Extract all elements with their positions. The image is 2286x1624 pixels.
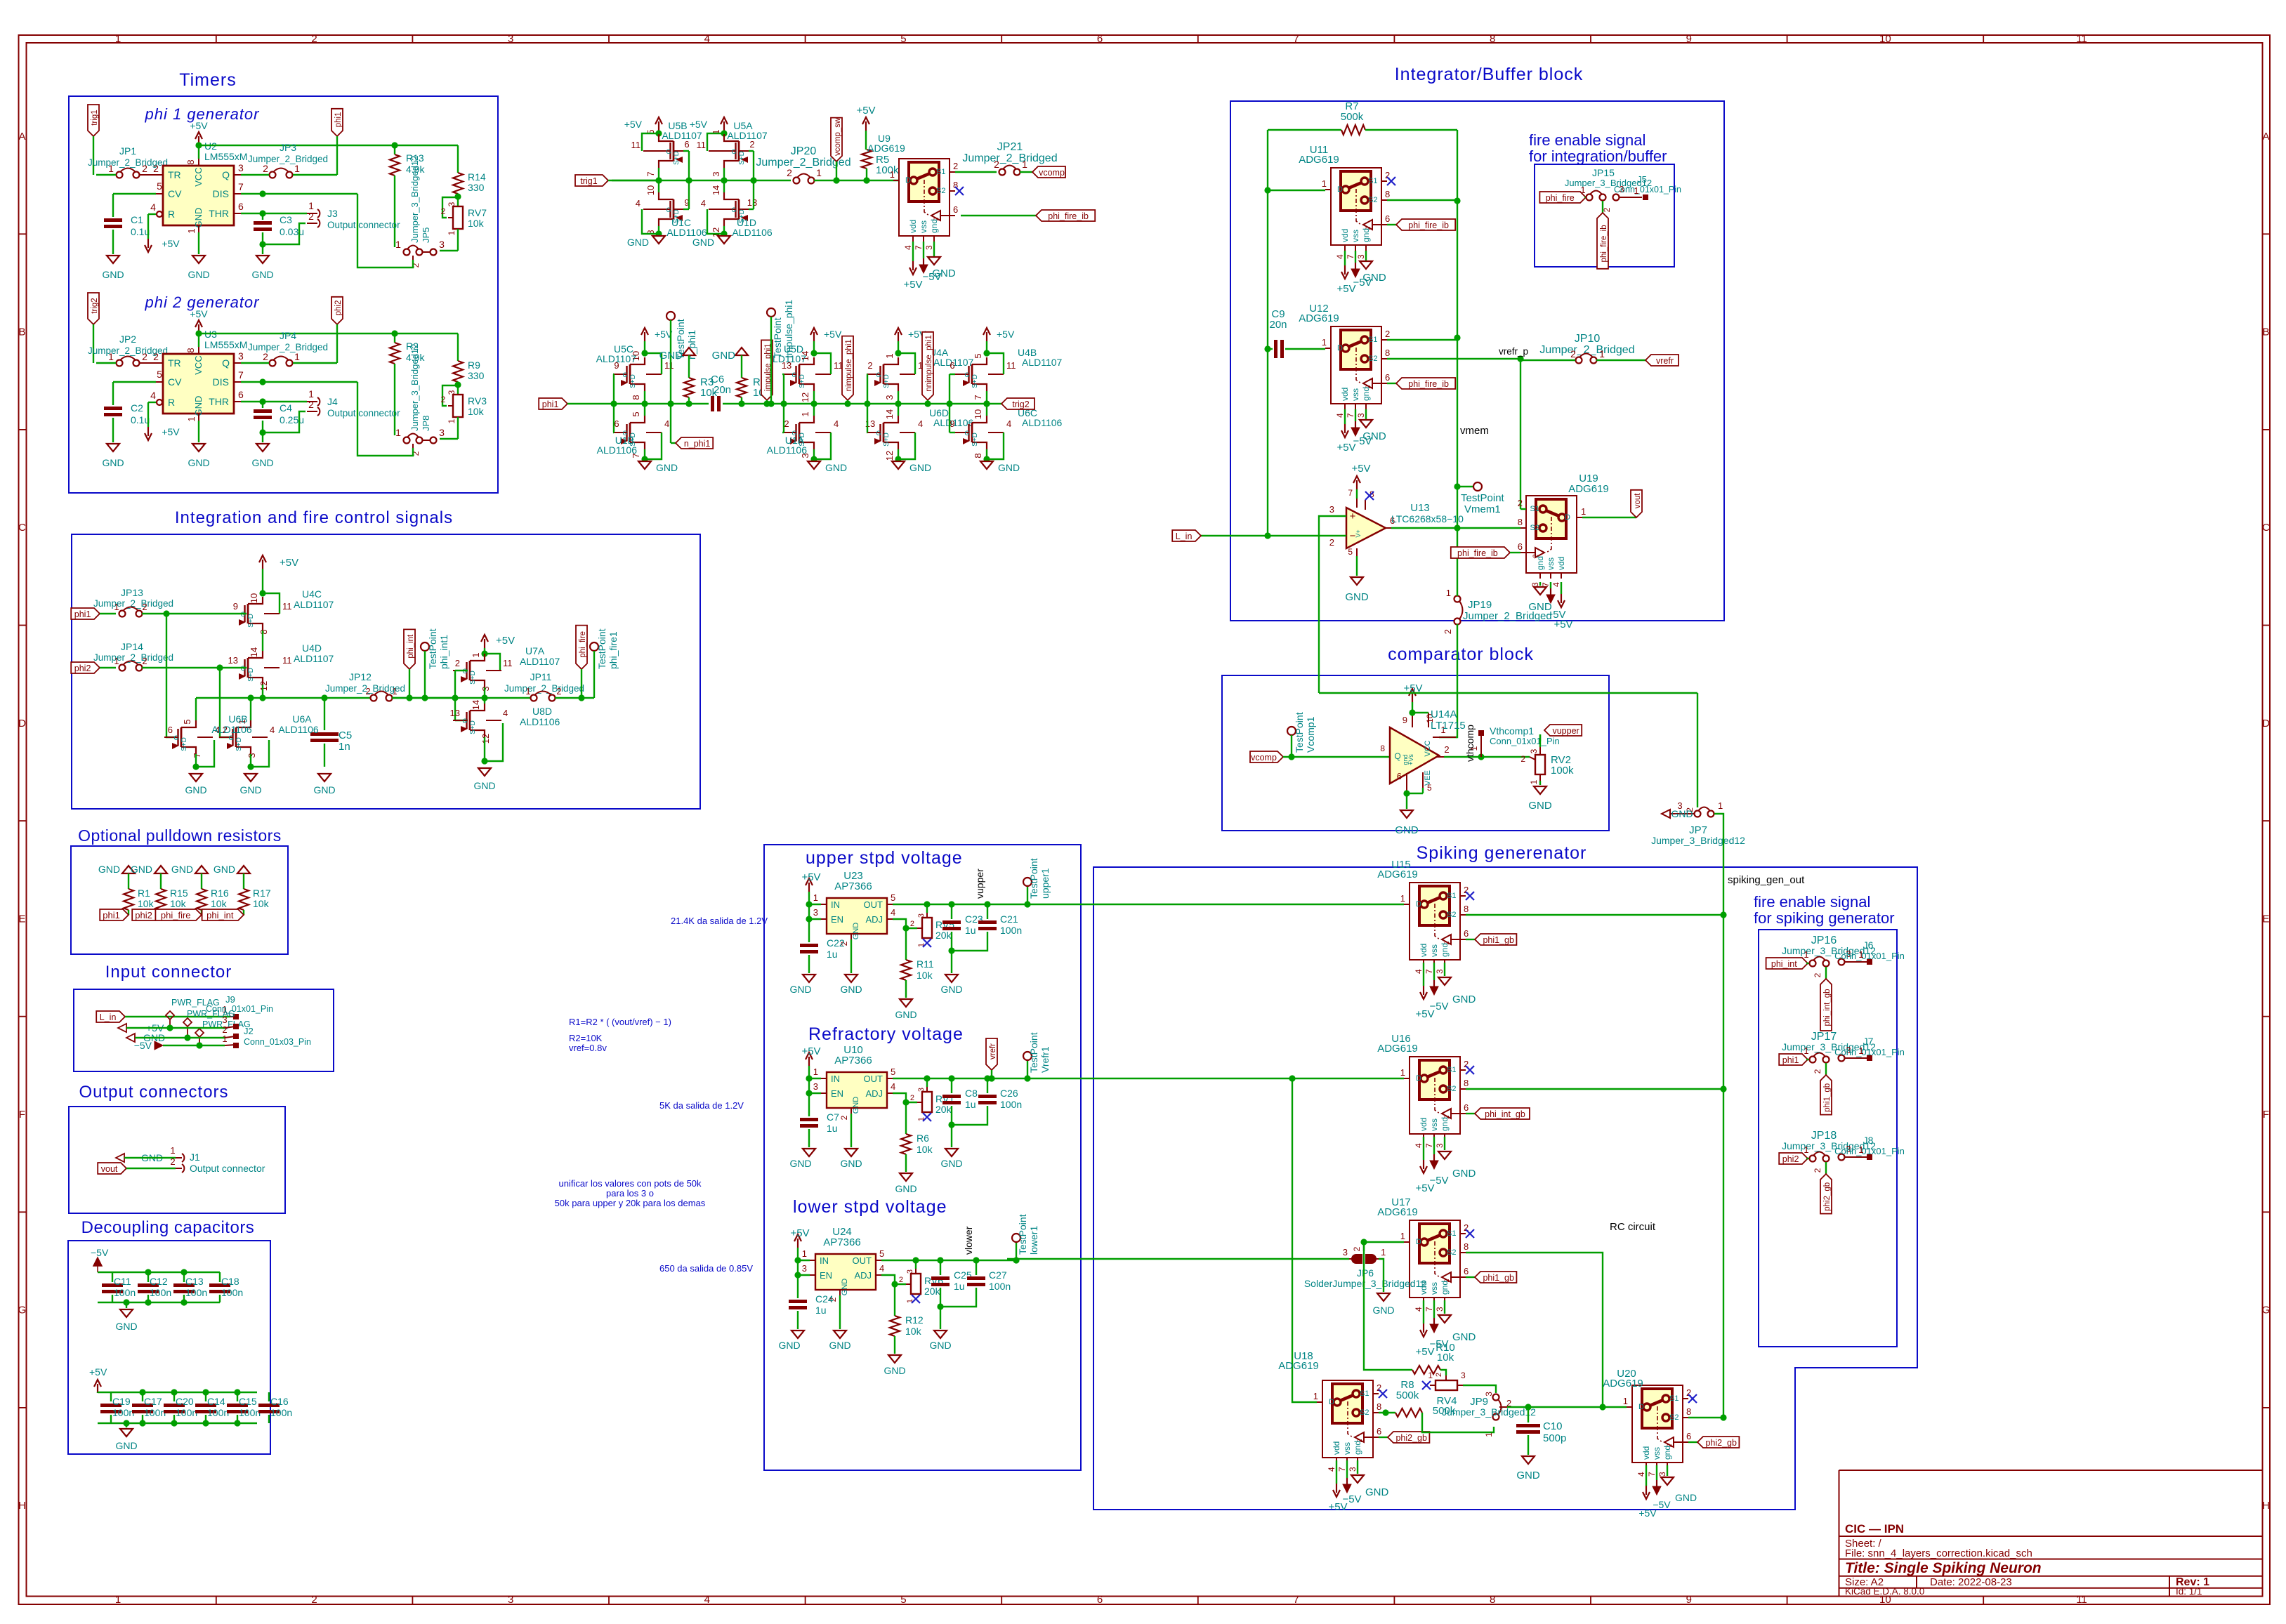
svg-text:1: 1 (294, 163, 300, 174)
wire OUT row (881, 1257, 1020, 1263)
power +5V (641, 328, 673, 357)
svg-text:100n: 100n (207, 1407, 229, 1418)
svg-text:phi_int: phi_int (1771, 959, 1797, 969)
svg-text:5: 5 (182, 719, 192, 724)
svg-text:2: 2 (263, 163, 268, 174)
svg-text:CV: CV (168, 188, 182, 199)
global label trig1 (88, 105, 99, 175)
svg-text:J6: J6 (1863, 939, 1874, 951)
svg-text:13: 13 (747, 197, 757, 208)
wire comparator output (1444, 753, 1530, 760)
svg-text:GND: GND (171, 864, 193, 875)
svg-text:phi_fire: phi_fire (1546, 193, 1575, 203)
local label vthcomp (1464, 725, 1476, 762)
svg-text:GND: GND (1372, 1305, 1394, 1316)
jumper JP7 (1651, 693, 1745, 846)
svg-text:gnd: gnd (1353, 1441, 1362, 1455)
svg-text:+5V: +5V (162, 238, 180, 249)
svg-text:1: 1 (170, 1145, 175, 1156)
svg-text:GND: GND (239, 784, 261, 796)
svg-text:8: 8 (1490, 33, 1495, 45)
transistor U5D PMOS (782, 351, 843, 402)
resistor R11 (901, 928, 934, 998)
U12 bottom power (1336, 409, 1386, 454)
wire JP19 to comparator (1439, 624, 1457, 737)
svg-text:TestPoint: TestPoint (772, 317, 783, 358)
svg-text:3: 3 (508, 1594, 513, 1606)
Integration and fire control signals box (72, 508, 700, 809)
svg-text:LTC6268x58−10: LTC6268x58−10 (1391, 513, 1464, 524)
transistor U5C PMOS (613, 351, 674, 400)
svg-text:ADG619: ADG619 (867, 143, 905, 154)
svg-text:2: 2 (1813, 1168, 1822, 1173)
connector J2 Conn_01x03_Pin (244, 1026, 311, 1047)
svg-text:Integration and fire control s: Integration and fire control signals (175, 508, 453, 527)
svg-text:3: 3 (439, 239, 445, 250)
svg-text:U8D: U8D (532, 706, 552, 717)
svg-text:IN: IN (831, 1074, 840, 1084)
svg-text:GND: GND (313, 784, 335, 796)
svg-text:JP1: JP1 (119, 145, 136, 157)
svg-text:1: 1 (1484, 1432, 1494, 1437)
svg-text:1: 1 (114, 602, 119, 612)
svg-text:n_phi1: n_phi1 (684, 439, 711, 449)
svg-text:1u: 1u (827, 1123, 838, 1134)
wires IN EN (794, 1260, 810, 1279)
svg-text:vmem: vmem (1460, 425, 1489, 437)
svg-text:GND: GND (778, 1340, 800, 1351)
wire source gnd (481, 723, 503, 765)
svg-text:6: 6 (1464, 1266, 1469, 1276)
svg-text:4: 4 (834, 418, 839, 429)
svg-text:2: 2 (1518, 498, 1523, 508)
jumper JP3 (241, 142, 337, 178)
regulator U10 AP7366 (813, 1044, 895, 1120)
ground (980, 461, 1020, 473)
svg-text:vupper: vupper (974, 869, 985, 899)
decoupling group +5V (89, 1366, 257, 1423)
global label phi_int (404, 629, 415, 701)
wire JP7 to spiking rail (1714, 814, 1723, 915)
svg-text:GND: GND (188, 457, 209, 468)
svg-text:+5V: +5V (903, 279, 922, 291)
svg-text:R12: R12 (905, 1314, 924, 1326)
svg-text:S+D: S+D (673, 151, 681, 165)
power +5V (690, 117, 728, 137)
svg-text:phi_int1: phi_int1 (438, 635, 449, 669)
timer IC U2 LM555xM (150, 140, 247, 234)
capacitor C24 (789, 1275, 834, 1329)
svg-text:Q: Q (222, 169, 230, 180)
svg-text:vcomp_sw: vcomp_sw (834, 117, 842, 156)
svg-text:H: H (2262, 1500, 2270, 1512)
U15 bottom power (1415, 963, 1476, 1020)
resistor R10 (1364, 1242, 1455, 1374)
svg-text:D: D (2262, 718, 2270, 730)
global label phi1_gb (1466, 934, 1516, 945)
svg-text:phi_int: phi_int (407, 634, 415, 659)
jumper JP9 vertical (1442, 1385, 1536, 1437)
svg-text:IN: IN (831, 899, 840, 910)
svg-text:vupper: vupper (1552, 726, 1579, 736)
svg-text:2: 2 (1443, 629, 1453, 634)
ground (251, 256, 273, 280)
wire source gnd (247, 740, 269, 770)
power +5V comparator (1403, 682, 1428, 716)
svg-text:J4: J4 (327, 396, 338, 407)
wire phi1 to U4C gate (166, 613, 230, 614)
svg-text:C: C (18, 522, 26, 534)
jumper JP11 (504, 671, 594, 701)
svg-text:100n: 100n (185, 1287, 207, 1298)
Optional pulldown resistors box (71, 826, 288, 954)
svg-text:1: 1 (1469, 746, 1479, 751)
svg-text:4: 4 (918, 418, 923, 429)
svg-text:phi1: phi1 (542, 400, 559, 409)
svg-text:for spiking generator: for spiking generator (1754, 909, 1895, 927)
potentiometer RV6 (899, 1260, 943, 1303)
svg-text:8: 8 (1490, 1594, 1495, 1606)
wire GND pin (198, 421, 199, 442)
svg-text:C18: C18 (221, 1276, 239, 1287)
svg-text:1: 1 (1400, 893, 1405, 904)
global label trig1 (575, 175, 659, 186)
connector J3 (307, 200, 400, 230)
svg-text:Vcomp1: Vcomp1 (1305, 716, 1316, 753)
svg-text:fire enable signal: fire enable signal (1754, 893, 1870, 911)
svg-text:vss: vss (1429, 1118, 1439, 1131)
svg-text:S1: S1 (1447, 892, 1456, 900)
svg-text:2: 2 (1435, 1373, 1443, 1377)
svg-text:10: 10 (1879, 33, 1891, 45)
ground up / resistor R3 (659, 348, 718, 404)
svg-text:1: 1 (108, 351, 114, 362)
wire bulk column (683, 151, 692, 209)
power +5V (983, 328, 1015, 357)
U9 bottom power (903, 242, 955, 291)
svg-text:1u: 1u (965, 1099, 976, 1110)
svg-text:S+D: S+D (247, 668, 255, 682)
svg-text:nnimpulse_phi1: nnimpulse_phi1 (925, 335, 933, 392)
wire nmos source (641, 433, 662, 463)
resistor R2 (390, 334, 425, 435)
svg-text:phi1: phi1 (74, 609, 91, 619)
svg-text:1: 1 (1858, 949, 1863, 960)
ground reg (840, 939, 862, 995)
svg-text:D: D (1337, 344, 1343, 352)
resistor R1 (98, 864, 155, 915)
svg-text:1: 1 (1804, 949, 1808, 960)
svg-text:GND: GND (840, 984, 862, 995)
svg-text:1: 1 (1400, 1067, 1405, 1078)
jumper JP21 (962, 141, 1057, 176)
svg-text:500p: 500p (1543, 1432, 1566, 1444)
svg-text:S+D: S+D (799, 374, 806, 388)
analog switch U11 ADG619 (1299, 144, 1395, 259)
svg-text:8: 8 (1464, 904, 1469, 914)
svg-text:Jumper_2_Bridged: Jumper_2_Bridged (962, 152, 1057, 164)
wire nmos source (895, 433, 915, 463)
svg-text:14: 14 (884, 409, 895, 419)
wire comparator out top rail (1319, 692, 1697, 694)
svg-text:R15: R15 (170, 887, 188, 899)
svg-text:Conn_01x01_Pin: Conn_01x01_Pin (1490, 736, 1560, 746)
svg-text:GND: GND (883, 1365, 905, 1376)
jumper JP10 (1520, 333, 1645, 364)
svg-text:vss: vss (1546, 557, 1556, 570)
svg-text:ADG619: ADG619 (1603, 1378, 1643, 1389)
wire -in L_in (1201, 535, 1346, 536)
svg-text:Optional pulldown resistors: Optional pulldown resistors (78, 826, 282, 845)
wire DIS to jumper (241, 378, 413, 456)
svg-text:gnd: gnd (1440, 1281, 1450, 1295)
svg-text:Conn_01x01_Pin: Conn_01x01_Pin (1834, 1146, 1905, 1156)
svg-text:Jumper_2_Bridged: Jumper_2_Bridged (248, 342, 328, 352)
resistor R13 (390, 145, 425, 247)
svg-text:12: 12 (884, 451, 895, 461)
svg-text:GND: GND (852, 1097, 860, 1114)
svg-text:Q: Q (1394, 751, 1400, 761)
svg-text:−5V: −5V (1342, 1493, 1361, 1505)
svg-text:7: 7 (1346, 254, 1355, 259)
svg-text:U14A: U14A (1431, 708, 1457, 720)
wire gates (864, 374, 870, 433)
local label vmem (1460, 425, 1489, 437)
ground (808, 461, 847, 473)
transistor U1B NMOS (613, 411, 669, 458)
svg-text:ADG619: ADG619 (1377, 1206, 1418, 1218)
svg-text:GND: GND (102, 269, 124, 280)
svg-text:Jumper_3_Bridged12: Jumper_3_Bridged12 (409, 156, 420, 243)
jumper JP2 (88, 334, 168, 367)
ground (102, 256, 124, 280)
svg-text:3: 3 (1356, 254, 1366, 259)
svg-text:10: 10 (973, 409, 983, 419)
svg-text:8: 8 (631, 395, 641, 400)
svg-text:6: 6 (953, 204, 958, 215)
svg-text:spiking_gen_out: spiking_gen_out (1728, 874, 1805, 886)
svg-text:1: 1 (1858, 1144, 1863, 1155)
svg-text:vout: vout (1634, 493, 1642, 509)
ground (892, 461, 931, 473)
svg-text:phi_int_gb: phi_int_gb (1485, 1109, 1525, 1119)
capacitor C5 / U6A (278, 694, 352, 767)
svg-text:ADJ: ADJ (865, 914, 883, 925)
svg-text:GND: GND (1345, 591, 1369, 603)
transistor U1C NMOS (636, 185, 707, 238)
svg-text:GND: GND (656, 462, 678, 473)
svg-text:8: 8 (1464, 1078, 1469, 1088)
svg-text:9: 9 (950, 418, 954, 429)
local label vrefr_p (1499, 346, 1528, 357)
svg-text:Integrator/Buffer block: Integrator/Buffer block (1395, 65, 1584, 84)
svg-text:vss: vss (1351, 230, 1360, 242)
svg-text:G: G (2262, 1305, 2271, 1316)
svg-text:S2: S2 (936, 187, 945, 195)
svg-text:2: 2 (784, 418, 789, 429)
svg-text:6: 6 (1464, 1102, 1469, 1113)
svg-text:3: 3 (813, 1081, 818, 1092)
svg-text:8: 8 (185, 348, 196, 352)
svg-text:1: 1 (813, 892, 818, 903)
ground (239, 774, 261, 796)
svg-text:S1: S1 (1447, 1066, 1456, 1074)
svg-text:D: D (1416, 900, 1421, 909)
capacitor C7 (800, 1093, 839, 1147)
svg-text:1: 1 (1529, 779, 1539, 784)
svg-text:gnd: gnd (1535, 556, 1545, 570)
svg-text:2: 2 (839, 1115, 849, 1120)
wire JP6 pin2 to U17 (1360, 1239, 1404, 1251)
wire R8 to JP9 (1422, 1413, 1494, 1432)
svg-text:4: 4 (1335, 254, 1345, 259)
svg-text:J2: J2 (244, 1026, 254, 1036)
svg-text:OUT: OUT (864, 899, 883, 910)
wire gates (780, 374, 787, 433)
svg-text:G: G (731, 206, 736, 213)
svg-text:2: 2 (142, 163, 147, 174)
svg-text:11: 11 (2076, 33, 2087, 45)
svg-text:7: 7 (1424, 969, 1434, 974)
power +5V U4C (259, 555, 298, 614)
wire U16 S2 to rail (1466, 1085, 1727, 1092)
test point phi_int1 (421, 628, 449, 701)
svg-text:U4C: U4C (302, 588, 322, 600)
svg-text:1: 1 (1322, 178, 1327, 189)
capacitor C16 (258, 1392, 292, 1423)
svg-text:gnd: gnd (1361, 387, 1371, 401)
svg-text:C8: C8 (965, 1088, 978, 1099)
svg-text:20k: 20k (935, 930, 952, 941)
svg-text:Jumper_2_Bridged: Jumper_2_Bridged (504, 683, 584, 694)
svg-text:100n: 100n (144, 1407, 166, 1418)
svg-text:Input connector: Input connector (105, 963, 232, 982)
svg-text:3: 3 (917, 1088, 926, 1092)
svg-text:gnd: gnd (1440, 1117, 1450, 1131)
svg-text:GND: GND (115, 1440, 137, 1451)
local label spiking_gen_out (1728, 874, 1805, 886)
svg-text:GND: GND (940, 1158, 962, 1169)
transistor U4B PMOS (950, 353, 1016, 400)
svg-text:Jumper_3_Bridged12: Jumper_3_Bridged12 (1651, 835, 1745, 846)
svg-text:5: 5 (973, 353, 983, 358)
wire bulk tie (642, 133, 659, 151)
wire vrefr_p down to U19 (1520, 360, 1521, 509)
svg-text:3: 3 (238, 162, 244, 173)
svg-text:JP8: JP8 (421, 416, 431, 431)
text phi 1 generator (145, 105, 261, 123)
wire bus right (409, 694, 531, 701)
labels (929, 347, 974, 428)
svg-text:V+: V+ (1355, 529, 1362, 537)
svg-text:2: 2 (142, 656, 147, 666)
transistor U6C NMOS (950, 409, 1011, 458)
svg-text:PWR_FLAG: PWR_FLAG (171, 998, 220, 1008)
svg-text:Impulse_phi1: Impulse_phi1 (783, 300, 794, 358)
svg-text:C5: C5 (339, 730, 352, 741)
svg-text:KiCad E.D.A. 8.0.0: KiCad E.D.A. 8.0.0 (1845, 1586, 1924, 1597)
transistor U4A PMOS (867, 353, 928, 400)
svg-text:2: 2 (153, 163, 159, 174)
svg-text:phi2_gb: phi2_gb (1705, 1438, 1737, 1448)
svg-text:11: 11 (282, 601, 292, 612)
svg-text:3: 3 (1435, 969, 1445, 974)
svg-text:3: 3 (222, 1015, 227, 1025)
wire U9 S1 to JP21 (955, 171, 997, 173)
analog switch U17 ADG619 (1377, 1196, 1474, 1312)
global label phi2_gb (1688, 1437, 1739, 1448)
capacitor C25 (931, 1260, 972, 1310)
svg-text:GND: GND (193, 208, 204, 228)
jumper JP12 (325, 671, 455, 701)
connector Vthcomp1 Conn_01x01_Pin (1469, 725, 1560, 757)
global label phi2_gb vertical (1820, 1162, 1832, 1214)
svg-text:S+D: S+D (469, 671, 477, 685)
svg-text:VCC: VCC (193, 167, 204, 186)
svg-text:+Vs: +Vs (1407, 754, 1414, 765)
svg-text:7: 7 (1424, 1143, 1434, 1148)
power +5V (790, 1227, 809, 1275)
svg-text:DIS: DIS (213, 188, 229, 199)
svg-text:C20: C20 (176, 1396, 194, 1407)
svg-text:C4: C4 (280, 402, 292, 414)
svg-text:10k: 10k (917, 970, 933, 981)
svg-text:ALD1107: ALD1107 (596, 353, 637, 364)
svg-text:100n: 100n (239, 1407, 261, 1418)
svg-text:TR: TR (168, 169, 181, 180)
svg-text:ALD1107: ALD1107 (1022, 357, 1063, 368)
svg-text:GND: GND (940, 984, 962, 995)
svg-text:1: 1 (800, 411, 810, 416)
svg-text:GND: GND (1362, 430, 1386, 442)
svg-text:+5V: +5V (624, 119, 643, 130)
svg-text:trig1: trig1 (91, 110, 99, 125)
voltage references box (764, 845, 1081, 1470)
wire phi1 down to U6B left (166, 614, 176, 737)
svg-text:vdd: vdd (908, 220, 918, 233)
wires pmos (983, 341, 1004, 416)
svg-text:LM555xM: LM555xM (204, 151, 247, 162)
svg-text:G: G (462, 718, 467, 725)
svg-text:3: 3 (1356, 413, 1366, 418)
capacitor C21 (952, 904, 1022, 951)
svg-text:vref=0.8v: vref=0.8v (569, 1043, 607, 1053)
svg-text:JP14: JP14 (121, 641, 143, 652)
global label phi2 (1779, 1153, 1809, 1164)
svg-text:EN: EN (831, 914, 843, 925)
svg-text:F: F (19, 1109, 25, 1121)
jumper JP20 (756, 145, 899, 184)
wire U15 S2 to rail (1466, 911, 1727, 918)
svg-text:C1: C1 (131, 214, 143, 225)
svg-text:comparator block: comparator block (1388, 645, 1534, 664)
potentiometer RV2 (1520, 734, 1574, 784)
svg-text:100n: 100n (112, 1407, 134, 1418)
power +5V down to R pin (145, 214, 180, 252)
svg-text:6: 6 (1385, 213, 1390, 224)
svg-text:lower stpd voltage: lower stpd voltage (793, 1197, 947, 1217)
analog switch U15 ADG619 (1377, 859, 1474, 974)
global label phi1 (1779, 1054, 1809, 1065)
capacitor C1 (104, 194, 156, 254)
svg-text:Spiking generenator: Spiking generenator (1417, 843, 1587, 863)
svg-text:9: 9 (233, 601, 238, 612)
svg-text:12: 12 (258, 681, 269, 691)
ground up / resistor R4 (712, 348, 770, 404)
svg-text:1: 1 (1623, 1396, 1628, 1406)
svg-text:JP11: JP11 (530, 671, 552, 682)
wire drain column (721, 168, 727, 192)
